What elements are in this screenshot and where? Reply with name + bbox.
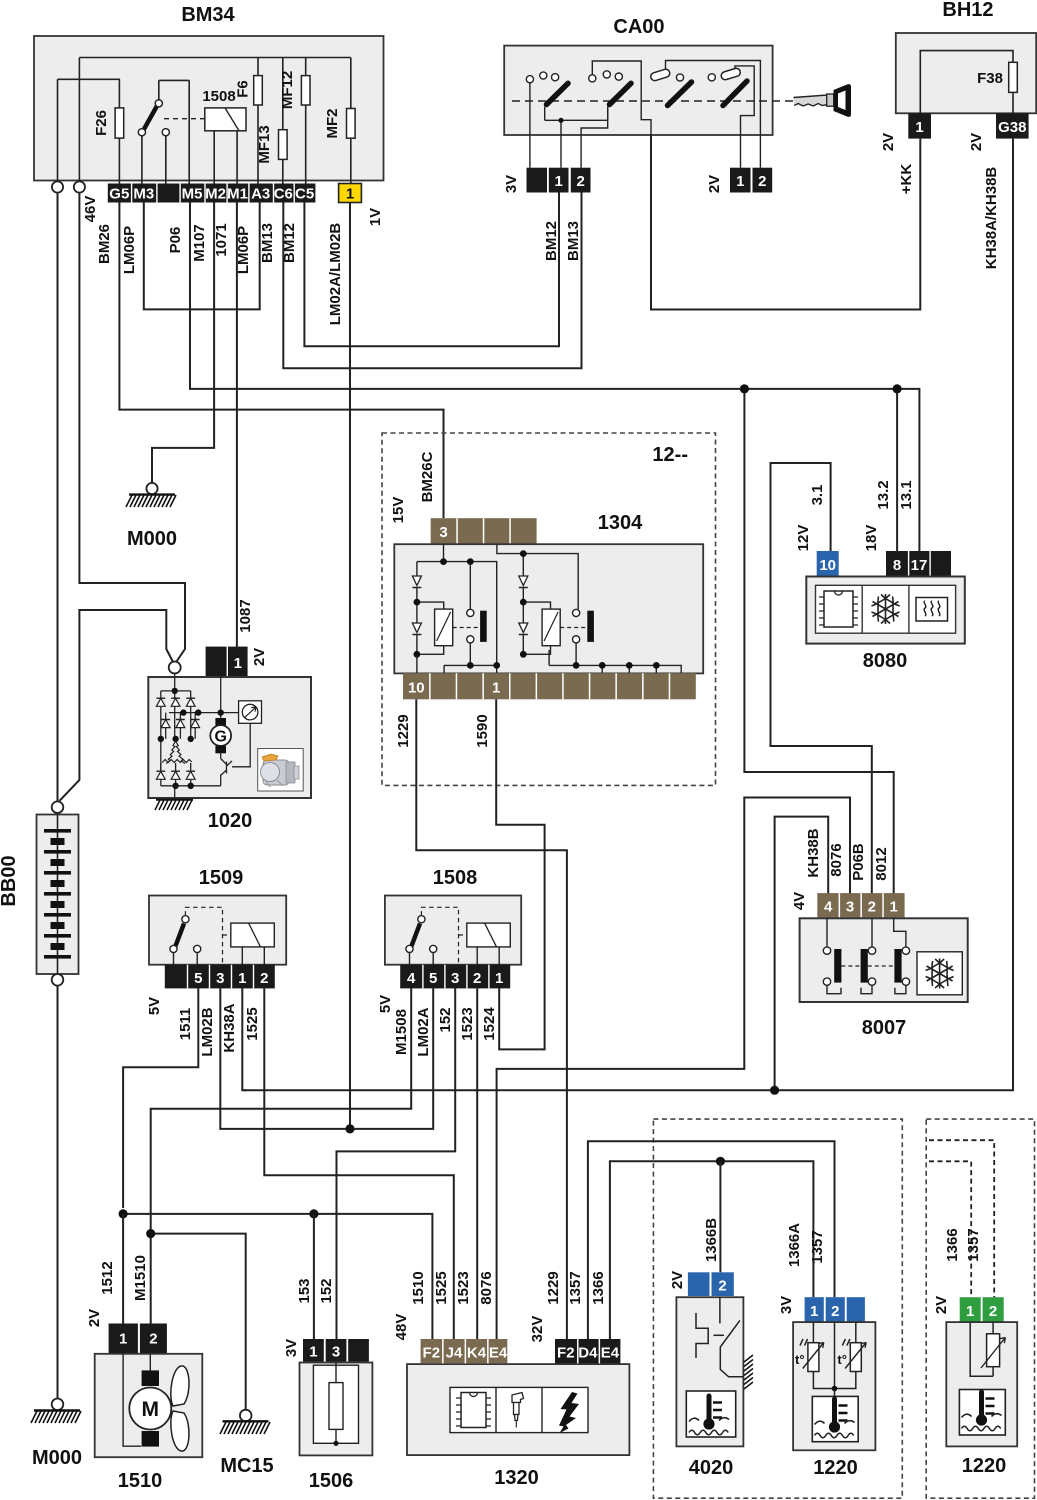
svg-text:1509: 1509: [199, 867, 244, 889]
alternator 1020 terminal B+: [169, 662, 181, 674]
svg-text:1: 1: [810, 1303, 818, 1320]
svg-text:LM02B: LM02B: [199, 1007, 216, 1056]
svg-text:CA00: CA00: [613, 16, 664, 38]
thermal switch 4020 body: [676, 1297, 743, 1479]
svg-text:8076: 8076: [478, 1271, 495, 1304]
8007 dashed link: [841, 965, 894, 967]
wire 8012 to 8007 pin1: [740, 384, 894, 918]
connector ring terminals 46V: [52, 181, 99, 222]
svg-text:MF2: MF2: [324, 109, 341, 139]
1320 icon strip: [450, 1387, 588, 1432]
svg-text:2V: 2V: [968, 133, 985, 151]
svg-text:C6: C6: [274, 186, 293, 203]
svg-text:1: 1: [736, 173, 744, 190]
svg-text:t°: t°: [837, 1352, 847, 1367]
optional 1220 thermistor: [970, 1322, 1005, 1376]
svg-text:1357: 1357: [965, 1228, 982, 1261]
wire 1512 to 1510 pin1: [86, 1214, 123, 1327]
temp sensor 1220 connector: [778, 1223, 865, 1322]
svg-text:M107: M107: [191, 224, 208, 262]
svg-text:G: G: [214, 729, 226, 746]
relay 1508 in BM34: [202, 88, 246, 184]
svg-text:2V: 2V: [251, 648, 268, 666]
connector BH12 G38: [968, 113, 1029, 269]
ground M000 lower: [31, 1399, 82, 1470]
relay 1508: [385, 867, 521, 965]
rectifier diodes top row: [156, 698, 195, 706]
rectifier diodes bottom row: [156, 771, 195, 779]
diode D4 right: [519, 623, 528, 635]
svg-text:1: 1: [119, 1331, 127, 1348]
switch 1 CA00: [526, 72, 607, 168]
wire 152 label to 1506 pin3: [318, 1278, 335, 1303]
ground 1020: [155, 800, 252, 832]
voltmeter icon box: [239, 701, 262, 724]
resistor 1506 body: [300, 1362, 373, 1492]
temp sensor 1220 body: [793, 1322, 875, 1479]
connector 1320 brown F2 J4 K4 E4: [393, 1271, 508, 1363]
svg-text:1304: 1304: [598, 512, 643, 534]
fuse box BM34: [34, 4, 384, 181]
svg-text:t°: t°: [795, 1352, 805, 1367]
svg-text:153: 153: [296, 1278, 313, 1303]
switch 3 CA00: [650, 61, 761, 168]
relay coil right: [542, 609, 585, 646]
wire P06 M5 to 8080/8007 rail: [190, 203, 919, 552]
wire 8076 8007 pin3 to 1320: [497, 798, 850, 1340]
wire LM02A/LM02B yellow pin to relay rail: [349, 203, 351, 1129]
svg-text:8: 8: [893, 557, 901, 574]
ignition key: [794, 84, 852, 117]
svg-text:1: 1: [234, 655, 242, 672]
svg-text:1366: 1366: [590, 1271, 607, 1304]
4020 coolant icon: [686, 1391, 735, 1437]
wire LM06P M3 to A3: [144, 203, 260, 310]
svg-text:D4: D4: [578, 1345, 598, 1362]
wire battery to ground: [57, 986, 59, 1399]
relay unit 8007: [800, 918, 968, 1039]
battery BB00: [0, 801, 79, 985]
svg-text:1523: 1523: [455, 1271, 472, 1304]
svg-text:F26: F26: [93, 110, 110, 136]
svg-text:F38: F38: [977, 70, 1003, 87]
resistor 1506 connector: [283, 1339, 369, 1362]
svg-text:8076: 8076: [828, 843, 845, 876]
wire LM02B 1509 pin3 to 1508 pin5: [220, 988, 433, 1133]
1304 internal wires left relay: [417, 544, 497, 673]
svg-text:1071: 1071: [213, 223, 230, 256]
connector 1304 bottom pins 10 and 1: [403, 673, 696, 699]
ground MC15: [220, 1410, 274, 1477]
icon IC chip 1320: [456, 1393, 491, 1428]
svg-text:KH38A/KH38B: KH38A/KH38B: [983, 167, 1000, 270]
svg-text:1229: 1229: [395, 714, 412, 747]
svg-text:3: 3: [216, 970, 224, 987]
connector bar BM34 pins G5 M3 M5 M2 M1 A3 C6 C5: [108, 184, 316, 203]
svg-text:2: 2: [868, 899, 876, 916]
svg-text:M3: M3: [133, 186, 154, 203]
1220 thermistor 2: [832, 1322, 866, 1396]
svg-text:M1510: M1510: [132, 1255, 149, 1301]
wire KH38A 1509 pin1: [242, 988, 246, 1090]
svg-text:1511: 1511: [177, 1008, 194, 1041]
icon snowflake 8080: [872, 594, 900, 624]
svg-text:M000: M000: [127, 528, 177, 550]
svg-text:F2: F2: [557, 1345, 575, 1362]
dashed box left bottom: [653, 1119, 902, 1498]
svg-text:BM26: BM26: [96, 224, 113, 264]
optional 1220 connector green: [960, 1297, 1004, 1322]
svg-text:1: 1: [890, 899, 898, 916]
svg-text:1523: 1523: [459, 1007, 476, 1040]
junction dots 1304 left: [414, 558, 501, 669]
relay 1509: [149, 867, 286, 965]
svg-text:1: 1: [966, 1303, 974, 1320]
connector 8080 pin 10: [795, 485, 839, 577]
wire 1229 from 1304 pin10 to 1320: [416, 699, 567, 1339]
svg-text:LM06P: LM06P: [121, 226, 138, 274]
8007 contact 2: [861, 918, 876, 993]
wire 1523 1508 pin2 to 1320 K4: [476, 988, 478, 1339]
1020 internal wires: [161, 674, 250, 800]
svg-text:2V: 2V: [933, 1296, 950, 1314]
svg-text:3: 3: [439, 524, 447, 541]
svg-text:M: M: [142, 1398, 160, 1421]
fuse MF12: [279, 58, 310, 184]
svg-text:1229: 1229: [545, 1271, 562, 1304]
wire M1510 branch to MC15: [132, 1229, 246, 1410]
wire 1071 M1 to 1020: [236, 203, 238, 647]
svg-text:BH12: BH12: [942, 0, 993, 21]
svg-text:4V: 4V: [791, 892, 808, 910]
svg-text:13.1: 13.1: [898, 480, 915, 509]
fuse F26: [93, 79, 124, 183]
svg-text:A3: A3: [251, 186, 270, 203]
svg-text:2V: 2V: [880, 133, 897, 151]
diode D3 right: [519, 576, 528, 588]
alternator photo box: [258, 749, 304, 792]
svg-text:2V: 2V: [706, 175, 723, 193]
svg-text:1366A: 1366A: [786, 1223, 803, 1267]
svg-text:1357: 1357: [567, 1271, 584, 1304]
svg-text:BM34: BM34: [181, 4, 235, 26]
svg-text:1510: 1510: [410, 1271, 427, 1304]
svg-text:LM02A: LM02A: [415, 1007, 432, 1056]
svg-text:F6: F6: [235, 80, 252, 98]
diode D1 left: [412, 576, 421, 588]
fan motor 1510 body: [95, 1354, 203, 1457]
wire 1525 1509 pin2 to 1320 J4: [264, 988, 454, 1339]
svg-text:15V: 15V: [390, 497, 407, 524]
svg-text:2: 2: [577, 173, 585, 190]
wire KH38B 8007 pin4: [770, 817, 828, 1095]
1220 coolant icon: [812, 1396, 858, 1441]
svg-text:BM12: BM12: [543, 221, 560, 261]
wire 1511 1509 pin5 to 1510 feed: [123, 988, 198, 1208]
svg-text:BM13: BM13: [259, 223, 276, 263]
wire alternator B+ to battery: [60, 610, 173, 801]
svg-text:8012: 8012: [873, 847, 890, 880]
fuse F6: [235, 58, 263, 184]
svg-text:46V: 46V: [82, 196, 99, 223]
svg-text:2V: 2V: [86, 1309, 103, 1327]
svg-text:2: 2: [758, 173, 766, 190]
svg-text:MC15: MC15: [220, 1455, 273, 1477]
svg-text:G38: G38: [998, 119, 1026, 136]
wire 3.1 8080 pin10 to 8007 pin2: [771, 463, 872, 918]
svg-text:152: 152: [437, 1007, 454, 1032]
4020 switch symbol: [696, 1297, 743, 1377]
connector CA00 3V: [503, 168, 591, 261]
svg-text:MF13: MF13: [256, 125, 273, 163]
fuse holder BH12: [896, 0, 1036, 113]
svg-text:1366B: 1366B: [703, 1218, 720, 1262]
wire 1357 1320 D4 to 1220 pin2: [588, 1141, 835, 1339]
generator G symbol: [210, 718, 231, 753]
dashed wire 1366 to optional 1220: [929, 1161, 971, 1297]
svg-text:8007: 8007: [862, 1017, 907, 1039]
icon injector 1320: [512, 1393, 524, 1428]
svg-text:5: 5: [429, 970, 437, 987]
optional 1220 coolant icon: [959, 1390, 1005, 1436]
svg-text:2: 2: [260, 970, 268, 987]
relay contact right: [573, 609, 594, 643]
svg-text:3: 3: [332, 1344, 340, 1361]
svg-text:P06: P06: [167, 227, 184, 254]
svg-text:13.2: 13.2: [875, 480, 892, 509]
fuse F38: [920, 51, 1017, 114]
svg-text:1: 1: [492, 680, 500, 697]
svg-text:1: 1: [238, 970, 246, 987]
dashed key axis: [512, 100, 796, 102]
svg-text:BM13: BM13: [565, 221, 582, 261]
svg-text:4020: 4020: [689, 1457, 734, 1479]
svg-text:1525: 1525: [433, 1271, 450, 1304]
svg-text:F2: F2: [423, 1345, 441, 1362]
wire 152 1508 pin3 to 1506 pin3: [337, 988, 456, 1339]
svg-text:1: 1: [555, 173, 563, 190]
svg-text:1590: 1590: [474, 714, 491, 747]
diode D2 left: [412, 623, 421, 635]
svg-text:M1508: M1508: [393, 1009, 410, 1055]
relay coil left: [435, 609, 478, 646]
dashed wire 1357 to optional 1220: [929, 1140, 994, 1297]
1508 switch: [406, 907, 467, 964]
wire labels 1229 1590: [395, 714, 491, 747]
svg-text:17: 17: [911, 557, 928, 574]
svg-text:1512: 1512: [99, 1261, 116, 1294]
regulator transistor: [221, 759, 232, 776]
control unit 8080: [806, 577, 965, 673]
wire KH38A/KH38B G38 down right side: [244, 139, 1014, 1091]
svg-text:8080: 8080: [863, 650, 908, 672]
svg-text:1: 1: [495, 970, 503, 987]
svg-text:1506: 1506: [309, 1470, 354, 1492]
icon heater 8080: [916, 598, 948, 622]
svg-text:3V: 3V: [778, 1296, 795, 1314]
wire internal rail top: [58, 58, 351, 182]
svg-text:1508: 1508: [202, 88, 235, 105]
svg-text:1V: 1V: [367, 208, 384, 226]
svg-text:152: 152: [318, 1278, 335, 1303]
icon snowflake 8007: [917, 952, 962, 995]
injection ECU 1320 box: [407, 1364, 629, 1489]
svg-text:32V: 32V: [529, 1316, 546, 1343]
thermal switch 4020 connector: [669, 1218, 734, 1296]
label 1510: [118, 1470, 163, 1492]
svg-text:1357: 1357: [809, 1230, 826, 1263]
svg-text:J4: J4: [446, 1345, 463, 1362]
connector pin 1 yellow LM02: [339, 184, 384, 227]
wire 1366 1320 E4 to 1220 pin1 and 4020: [610, 1157, 814, 1339]
fan blades 1510: [171, 1366, 189, 1451]
svg-text:2: 2: [831, 1303, 839, 1320]
8007 contact 1: [823, 918, 841, 993]
switch 4 CA00: [708, 66, 754, 168]
svg-text:18V: 18V: [863, 525, 880, 552]
relay contact left: [467, 609, 487, 643]
svg-text:M000: M000: [32, 1447, 82, 1469]
svg-text:12V: 12V: [795, 525, 812, 552]
feed bus 1512/153/1510: [119, 1209, 433, 1339]
alternator 1020 body: [148, 677, 311, 798]
switch in BM34: [138, 80, 205, 183]
4020 ground hatch: [744, 1355, 753, 1389]
svg-text:1: 1: [915, 119, 923, 136]
svg-text:M5: M5: [182, 186, 203, 203]
svg-text:KH38A: KH38A: [221, 1003, 238, 1052]
junction dots 1304 right: [520, 550, 660, 669]
wire 153 to 1506 pin1: [296, 1214, 314, 1339]
svg-text:MF12: MF12: [279, 71, 296, 109]
wire BM13 C6 to CA00: [283, 193, 581, 369]
switch 2 CA00: [581, 61, 651, 168]
svg-text:E4: E4: [489, 1345, 508, 1362]
wire 1590 from 1304 pin1 to relay 1508: [496, 699, 544, 1049]
svg-text:10: 10: [819, 557, 836, 574]
module 1304: [390, 451, 643, 534]
connector CA00 2V: [706, 168, 772, 193]
wire 13.2 to 8080 pin8: [893, 384, 902, 551]
connector 1320 black F2 D4 E4: [529, 1271, 620, 1363]
svg-text:LM02A/LM02B: LM02A/LM02B: [327, 223, 344, 326]
wire 46V ring1 to battery: [57, 193, 59, 802]
svg-text:+KK: +KK: [898, 164, 915, 195]
ground M000 upper: [126, 483, 177, 550]
wire BM26 G5 to 1304 pin3: [119, 203, 443, 519]
svg-text:BB00: BB00: [0, 855, 20, 906]
svg-text:M1: M1: [227, 186, 248, 203]
svg-text:1508: 1508: [433, 867, 478, 889]
optional 1220 labels: [933, 1228, 982, 1314]
connector 8080 pins 8 17: [863, 480, 951, 576]
svg-text:2: 2: [718, 1278, 726, 1295]
wire M107 M2 to ground M000: [152, 203, 214, 484]
connector 1020 pin 1 1087: [206, 599, 268, 676]
svg-text:2: 2: [989, 1303, 997, 1320]
svg-text:48V: 48V: [393, 1314, 410, 1341]
svg-text:4: 4: [407, 970, 416, 987]
icon lightning bolt 1320: [559, 1392, 579, 1433]
wire BM12 C5 to CA00: [304, 193, 559, 347]
connector 1304 top pin 3: [431, 518, 537, 544]
icon IC chip 8080: [819, 591, 858, 627]
svg-text:2: 2: [473, 970, 481, 987]
8007 contact 3: [894, 918, 910, 993]
svg-text:1: 1: [346, 186, 354, 203]
svg-text:1220: 1220: [813, 1457, 858, 1479]
1220 thermistor 1: [795, 1322, 835, 1388]
dashed harness box 12--: [382, 433, 716, 785]
svg-text:3.1: 3.1: [809, 485, 826, 506]
ignition switch CA00: [504, 16, 772, 135]
svg-text:E4: E4: [601, 1345, 620, 1362]
svg-text:1366: 1366: [944, 1228, 961, 1261]
svg-text:KH38B: KH38B: [805, 828, 822, 877]
svg-text:M2: M2: [205, 186, 226, 203]
stator winding: [162, 741, 192, 764]
svg-text:5V: 5V: [377, 995, 394, 1013]
svg-text:G5: G5: [109, 186, 129, 203]
optional 1220 body: [946, 1322, 1017, 1477]
svg-text:3V: 3V: [283, 1339, 300, 1357]
fan motor 1510 connector: [109, 1324, 167, 1354]
module 1304 body: [394, 544, 703, 673]
wire 46V ring2 to alternator B+: [79, 193, 185, 662]
wire labels below BM34: [96, 223, 344, 326]
svg-text:10: 10: [408, 680, 425, 697]
connector 8007 pins 4 3 2 1: [791, 828, 905, 917]
wire M1508 1508 pin4 to 1510 pin2: [151, 988, 412, 1323]
svg-text:1: 1: [309, 1344, 317, 1361]
svg-text:2V: 2V: [669, 1271, 686, 1289]
1508 coil: [467, 923, 511, 965]
svg-text:1524: 1524: [481, 1007, 498, 1041]
svg-text:3: 3: [451, 970, 459, 987]
svg-text:1510: 1510: [118, 1470, 163, 1492]
svg-text:1525: 1525: [244, 1007, 261, 1040]
rectifier diodes middle row: [161, 720, 199, 728]
svg-text:1087: 1087: [237, 599, 254, 632]
svg-text:BM26C: BM26C: [419, 451, 436, 502]
svg-text:2: 2: [149, 1331, 157, 1348]
connector 1509 pins 5 3 1 2: [146, 965, 275, 1057]
dashed box right bottom: [926, 1119, 1034, 1498]
connector BH12 pin 1: [880, 113, 931, 194]
fuse MF2: [324, 58, 355, 184]
connector 1508 pins 4 5 3 2 1: [377, 965, 510, 1057]
svg-text:3V: 3V: [503, 175, 520, 193]
1509 coil: [231, 923, 274, 965]
fuse MF13: [256, 58, 287, 184]
svg-text:12--: 12--: [652, 444, 688, 466]
svg-text:5: 5: [194, 970, 202, 987]
svg-text:P06B: P06B: [850, 843, 867, 881]
svg-text:C5: C5: [295, 186, 314, 203]
svg-text:1020: 1020: [208, 810, 253, 832]
svg-text:3: 3: [846, 899, 854, 916]
junction dots 1020: [158, 688, 224, 789]
svg-text:1220: 1220: [962, 1455, 1007, 1477]
wire +KK CA00 to BH12: [651, 135, 920, 310]
svg-text:K4: K4: [467, 1345, 487, 1362]
svg-text:5V: 5V: [146, 997, 163, 1015]
1304 internal wires right relay: [497, 544, 681, 673]
1509 switch: [170, 907, 231, 964]
svg-text:1320: 1320: [494, 1467, 539, 1489]
svg-text:4: 4: [824, 899, 833, 916]
